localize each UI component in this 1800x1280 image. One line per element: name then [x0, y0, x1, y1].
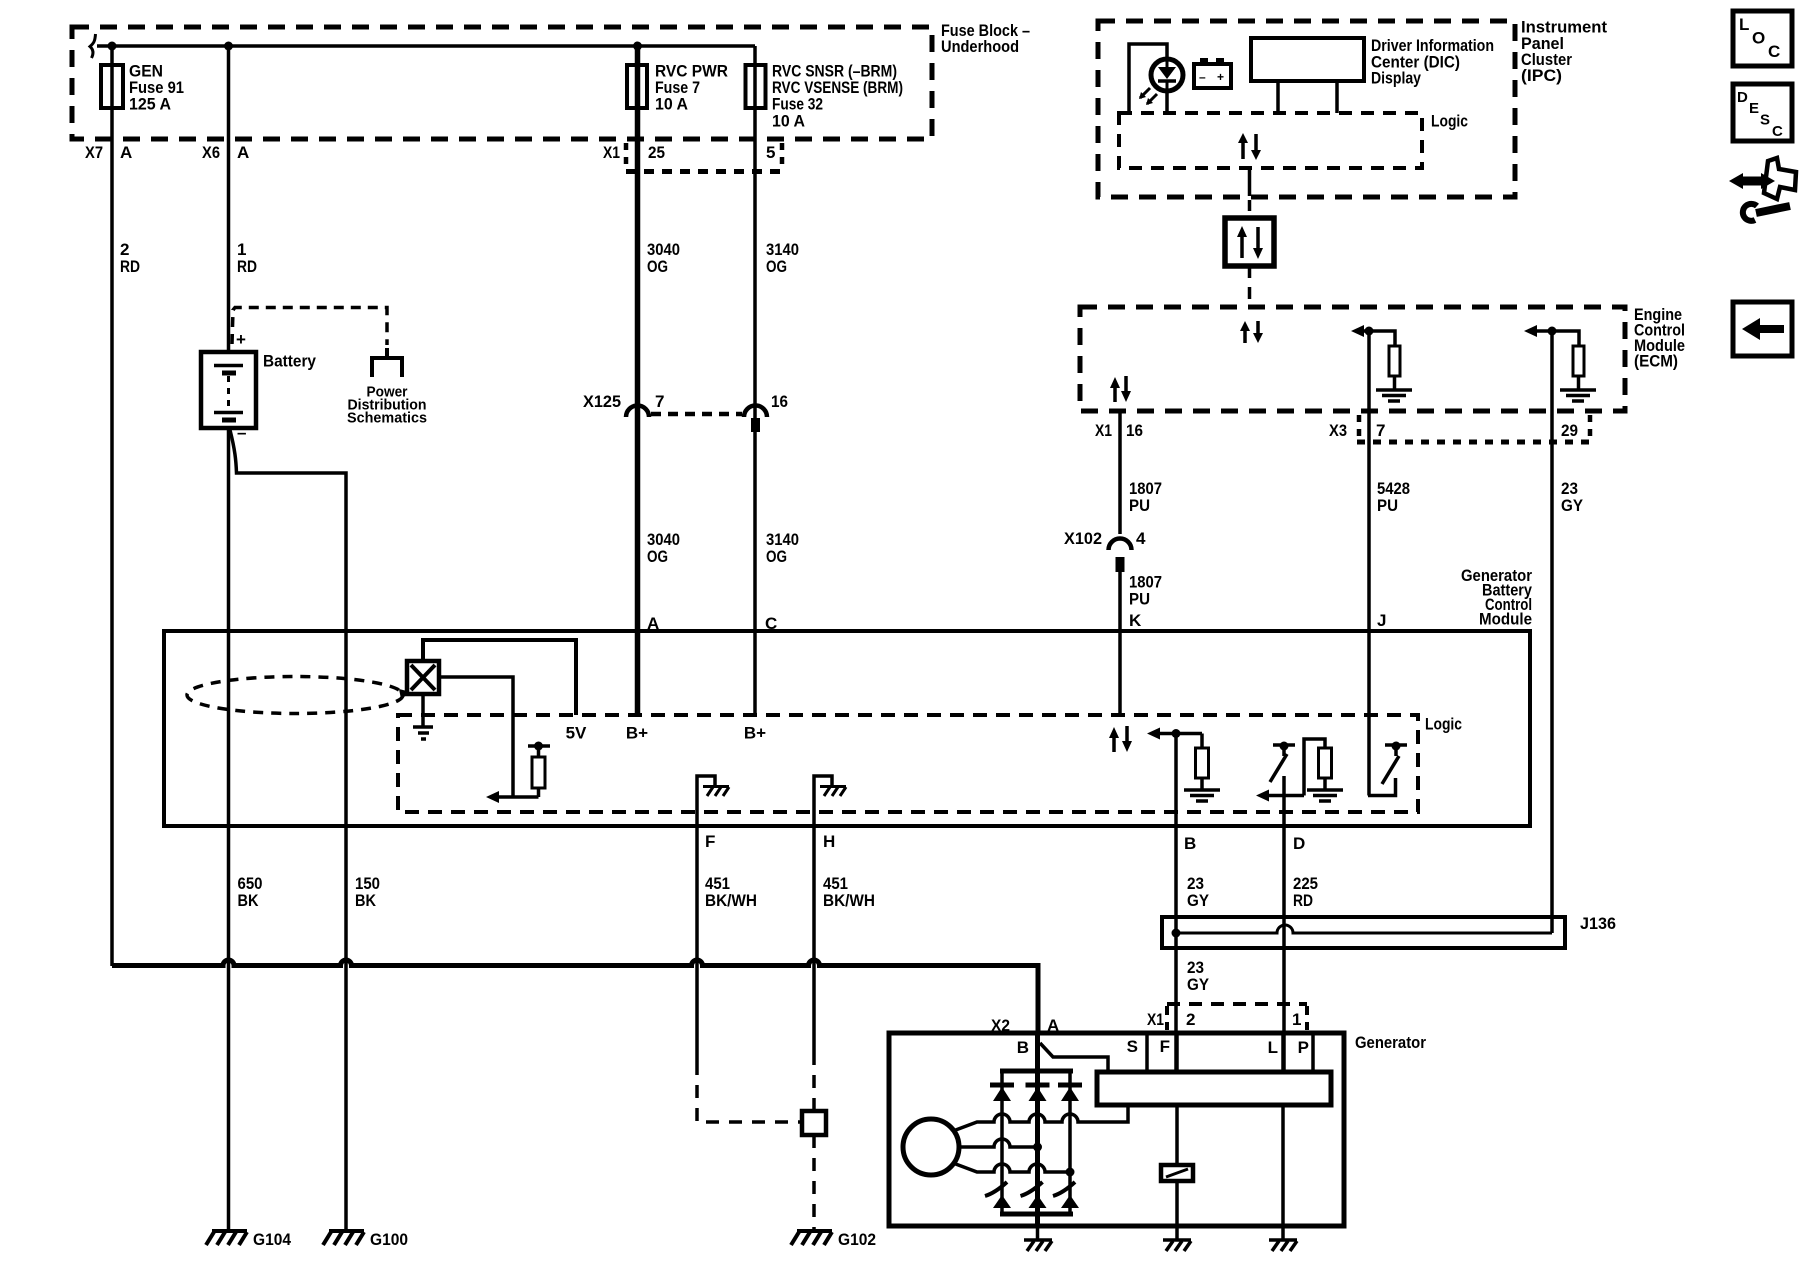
IPC serial data arrows — [1241, 142, 1245, 159]
L wire below regulator to ground — [1281, 1105, 1285, 1226]
serial data wire DLC to ECM — [1248, 266, 1252, 307]
DIC display box — [1251, 38, 1364, 81]
svg-text:S: S — [1127, 1037, 1138, 1056]
battery — [201, 352, 256, 428]
wire capacitor to internal resistor — [439, 677, 513, 797]
wire battery negative branch to 150 BK — [230, 430, 346, 966]
svg-text:X125: X125 — [583, 392, 621, 411]
internal 5V pull resistor — [528, 744, 550, 748]
engine control module (ECM) box — [1080, 307, 1625, 411]
svg-text:GY: GY — [1187, 975, 1210, 994]
GBCM H ground hook — [814, 776, 832, 826]
resistor in ECM pin 7 circuit — [1389, 346, 1400, 376]
svg-text:O: O — [1752, 29, 1765, 48]
svg-text:PU: PU — [1129, 496, 1150, 515]
wire 650 BK label — [238, 874, 263, 910]
fuse block - underhood module box — [72, 27, 932, 139]
svg-text:X1: X1 — [603, 143, 620, 162]
svg-text:1: 1 — [1292, 1010, 1301, 1029]
stator winding circle — [903, 1119, 959, 1175]
svg-text:P: P — [1298, 1038, 1309, 1057]
svg-text:Logic: Logic — [1425, 715, 1462, 734]
bus wire inside fuse block — [90, 34, 96, 58]
icon LOC box — [1733, 11, 1792, 66]
svg-text:Module: Module — [1479, 610, 1532, 629]
svg-text:RD: RD — [237, 257, 257, 276]
svg-text:Underhood: Underhood — [941, 37, 1019, 56]
svg-text:BK/WH: BK/WH — [823, 891, 875, 910]
generator ground F — [1175, 1226, 1179, 1240]
ECM serial data arrows — [1243, 331, 1247, 343]
wire 451 BK/WH (F) — [695, 826, 699, 966]
data link connector box — [1225, 218, 1274, 266]
svg-text:29: 29 — [1561, 421, 1578, 440]
svg-text:10 A: 10 A — [655, 95, 688, 114]
node X6 bus junction — [224, 42, 233, 51]
svg-text:G102: G102 — [838, 1230, 876, 1249]
junction block J136 — [1162, 917, 1565, 948]
ECM K-line arrows — [1113, 387, 1117, 402]
svg-text:D: D — [1737, 89, 1748, 106]
svg-text:–: – — [237, 423, 246, 442]
dashed 451 wires to splice — [695, 966, 699, 1062]
wire 1807 PU (X102 to GBCM K) — [1118, 557, 1122, 715]
IPC logic box — [1119, 113, 1422, 168]
svg-text:B: B — [1184, 834, 1196, 853]
connector X1 above generator — [1167, 1002, 1307, 1006]
wire LED to logic — [1165, 91, 1169, 113]
ground G100 — [344, 966, 348, 1231]
connector X125 pin 7 — [626, 406, 649, 417]
svg-text:A: A — [237, 143, 249, 162]
wire battery negative to 650 BK — [227, 428, 231, 966]
connector X1 at fuse block bottom — [624, 143, 629, 168]
resistor in ECM pin 29 circuit — [1573, 346, 1584, 376]
icon back arrow box — [1733, 302, 1792, 356]
svg-text:C: C — [1768, 42, 1780, 61]
svg-text:X102: X102 — [1064, 529, 1102, 548]
svg-text:J136: J136 — [1580, 914, 1616, 933]
svg-text:+: + — [236, 330, 246, 349]
wire 1807 PU (ECM X1-16 to X102) — [1118, 411, 1122, 534]
svg-text:7: 7 — [655, 392, 664, 411]
svg-text:L: L — [1739, 15, 1749, 34]
GBCM J switch — [1368, 778, 1396, 796]
svg-text:X7: X7 — [85, 143, 103, 162]
wire 3140 OG (RVC SNSR to GBCM C) — [753, 46, 757, 715]
fuse GEN Fuse 91 125 A — [101, 65, 123, 108]
svg-text:F: F — [1160, 1037, 1170, 1056]
GBCM D sense resistor — [1304, 739, 1325, 796]
svg-text:F: F — [705, 832, 715, 851]
ground G104 — [227, 966, 231, 1231]
svg-text:S: S — [1760, 112, 1770, 129]
svg-text:+: + — [1217, 70, 1224, 84]
battery icon in IPC — [1194, 64, 1231, 88]
wire 3040 OG (RVC PWR to GBCM A) — [635, 46, 641, 715]
wire 150 BK label — [355, 874, 380, 910]
ground bus wire (generator B+ cable) — [112, 960, 1038, 1033]
svg-text:OG: OG — [766, 257, 787, 276]
GBCM B driver ground — [1184, 788, 1220, 792]
svg-text:X6: X6 — [202, 143, 220, 162]
svg-text:X1: X1 — [1095, 421, 1112, 440]
diode column 1 — [1000, 1071, 1004, 1214]
svg-text:Battery: Battery — [263, 352, 316, 371]
svg-text:4: 4 — [1136, 529, 1146, 548]
ground in ECM pin 29 circuit — [1560, 388, 1596, 392]
svg-text:–: – — [1199, 70, 1206, 84]
svg-text:Logic: Logic — [1431, 112, 1468, 131]
svg-text:OG: OG — [647, 547, 668, 566]
voltage regulator box — [1097, 1072, 1331, 1105]
DIC display legs — [1276, 81, 1280, 113]
svg-text:Schematics: Schematics — [347, 410, 427, 427]
serial data wire IPC to DLC — [1248, 168, 1252, 196]
svg-text:G100: G100 — [370, 1230, 408, 1249]
F pin wire — [1175, 1033, 1179, 1072]
generator ground L — [1281, 1226, 1285, 1240]
charge indicator LED — [1151, 59, 1183, 91]
svg-text:25: 25 — [648, 143, 665, 162]
svg-text:A: A — [120, 143, 132, 162]
node RVC PWR bus junction — [633, 42, 642, 51]
GBCM B driver resistor — [1200, 734, 1204, 749]
stator tap top — [953, 1105, 1128, 1131]
ECM generator turn on signal circuit (pin 7) — [1362, 331, 1395, 346]
noise suppression dashed ellipse — [187, 677, 403, 714]
svg-text:PU: PU — [1129, 590, 1150, 609]
fuse RVC SNSR / RVC VSENSE Fuse 32 10 A — [746, 65, 766, 108]
connector X102 pin 4 — [1109, 539, 1132, 551]
stator tap bottom — [953, 1163, 1070, 1172]
stator tap middle — [959, 1139, 1037, 1147]
svg-text:C: C — [1772, 123, 1783, 140]
field winding wire below regulator — [1175, 1105, 1179, 1165]
instrument panel cluster (IPC) module box — [1098, 21, 1515, 197]
GBCM B driver: arrow line — [1158, 732, 1202, 736]
icon diagnostic pointer with wrench — [1729, 158, 1796, 221]
pin labels 5V B+ B+ — [566, 724, 767, 743]
connector X125 pin 16 — [744, 406, 767, 417]
svg-text:BK: BK — [355, 891, 377, 910]
J136 internal link — [1176, 925, 1552, 933]
fuse RVC PWR Fuse 7 10 A — [627, 65, 647, 108]
svg-text:OG: OG — [766, 547, 787, 566]
wire 23 GY (ECM X3-29 to J136) — [1550, 331, 1554, 933]
svg-text:7: 7 — [1376, 421, 1385, 440]
svg-text:X1: X1 — [1147, 1010, 1164, 1029]
field wire to generator case ground — [1175, 1181, 1179, 1226]
generator battery control module box — [164, 631, 1530, 826]
P pin wire — [1311, 1033, 1315, 1072]
wire 1 RD (X6 to battery) — [227, 46, 231, 352]
node X7 bus junction — [108, 42, 117, 51]
GBCM D switch — [1273, 743, 1295, 747]
svg-text:PU: PU — [1377, 496, 1398, 515]
svg-text:16: 16 — [1126, 421, 1143, 440]
svg-text:L: L — [1268, 1038, 1278, 1057]
svg-text:RD: RD — [1293, 891, 1313, 910]
svg-text:G104: G104 — [253, 1230, 291, 1249]
upper diodes — [990, 1085, 1082, 1101]
svg-text:E: E — [1749, 100, 1759, 117]
splice box — [802, 1111, 826, 1135]
svg-text:K: K — [1129, 611, 1142, 630]
svg-text:B+: B+ — [626, 724, 648, 743]
S pin wire — [1145, 1033, 1149, 1072]
generator pin labels — [1017, 1037, 1309, 1057]
GBCM K-line arrows — [1112, 737, 1116, 752]
rectifier bridge top bar — [1000, 1069, 1073, 1074]
generator B output wire — [1035, 1033, 1040, 1226]
capacitor symbol — [407, 661, 439, 694]
wire to charge indicator — [1129, 44, 1167, 113]
connector X3 on ECM — [1357, 415, 1362, 438]
ground in ECM pin 7 circuit — [1376, 388, 1412, 392]
rotor field winding — [1161, 1165, 1193, 1181]
GBCM F ground hook — [697, 776, 715, 826]
svg-text:(ECM): (ECM) — [1634, 352, 1678, 371]
svg-text:Generator: Generator — [1355, 1033, 1426, 1052]
svg-text:5V: 5V — [566, 724, 587, 743]
arrow to logic from resistor — [497, 795, 539, 799]
diode column 3 — [1068, 1071, 1072, 1214]
ECM battery voltage sense circuit (pin 29) — [1535, 331, 1579, 346]
svg-text:B+: B+ — [744, 724, 766, 743]
L pin wire — [1281, 1033, 1285, 1072]
generator box — [889, 1033, 1344, 1226]
svg-text:J: J — [1377, 611, 1386, 630]
GBCM D arrow line — [1267, 794, 1304, 798]
svg-text:RD: RD — [120, 257, 140, 276]
generator ground B — [1036, 1226, 1040, 1240]
capacitor ground — [421, 694, 425, 726]
wire 451 BK/WH (H) — [812, 826, 816, 966]
wire capacitor to 5V — [423, 640, 576, 715]
wire 2 RD (GEN fuse to ground bus) — [110, 46, 114, 966]
lower diodes with breakover marks — [985, 1182, 1079, 1208]
wire D 225 RD (GBCM to generator L) — [1282, 796, 1286, 1073]
LED emission arrows — [1140, 88, 1150, 98]
B pin blade to regulator — [1040, 1043, 1108, 1072]
svg-text:10 A: 10 A — [772, 112, 805, 131]
svg-text:D: D — [1293, 834, 1305, 853]
wire B 23 GY (GBCM to generator F) — [1174, 734, 1178, 1073]
rectifier bridge bottom bar — [1000, 1212, 1073, 1217]
svg-text:BK/WH: BK/WH — [705, 891, 757, 910]
svg-text:GY: GY — [1187, 891, 1210, 910]
svg-text:2: 2 — [1186, 1010, 1195, 1029]
svg-text:16: 16 — [771, 392, 788, 411]
GBCM logic box — [398, 715, 1418, 812]
svg-text:BK: BK — [238, 891, 260, 910]
svg-text:5: 5 — [766, 143, 775, 162]
svg-text:X3: X3 — [1329, 421, 1347, 440]
wire 5428 PU (ECM X3-7 to GBCM J) — [1367, 331, 1371, 796]
svg-text:B: B — [1017, 1038, 1029, 1057]
power distribution schematics reference — [232, 308, 387, 346]
ground G102 — [791, 1231, 832, 1245]
GBCM D sense ground — [1307, 788, 1343, 792]
svg-text:GY: GY — [1561, 496, 1584, 515]
svg-text:125 A: 125 A — [129, 95, 171, 114]
svg-text:H: H — [823, 832, 835, 851]
svg-text:Display: Display — [1371, 69, 1421, 88]
dashed wire splice to G102 — [812, 1135, 816, 1230]
icon DESC box — [1733, 84, 1792, 141]
svg-text:(IPC): (IPC) — [1521, 66, 1562, 85]
svg-text:OG: OG — [647, 257, 668, 276]
